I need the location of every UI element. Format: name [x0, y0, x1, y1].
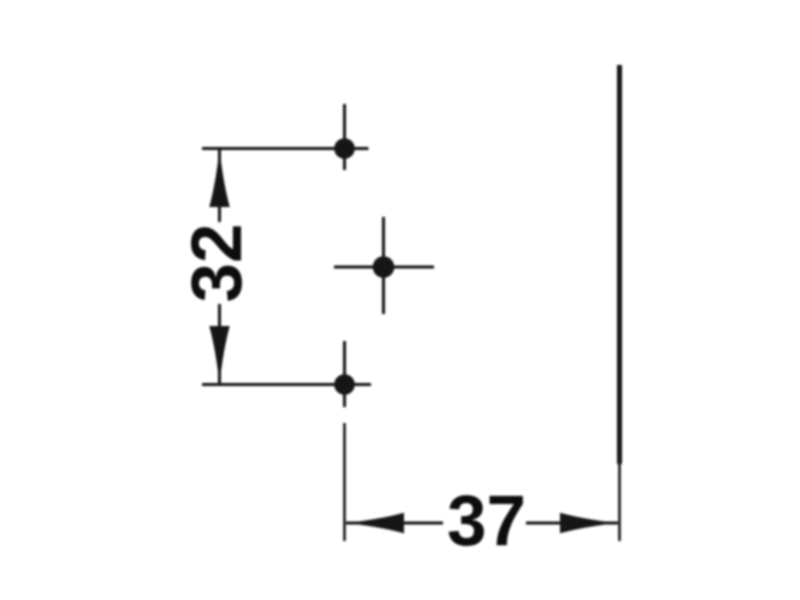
middle hole vertical centerline: [382, 217, 385, 314]
middle hole dot: [373, 256, 395, 278]
32 dimension line lower shaft: [218, 304, 221, 383]
panel edge line: [617, 65, 622, 464]
top hole horizontal centerline / 32-dim top extension line: [202, 147, 369, 150]
32 dimension line upper shaft: [218, 150, 221, 222]
37-dim left extension line (below bottom hole): [343, 423, 346, 541]
bottom hole dot: [334, 374, 355, 395]
37 dimension right arrowhead (points right): [560, 513, 618, 534]
37 dimension line right shaft: [526, 522, 618, 525]
svg-text:37: 37: [447, 482, 526, 561]
37 dimension line left shaft: [346, 522, 443, 525]
extension line below panel edge: [618, 464, 621, 541]
bottom hole horizontal centerline / 32-dim bottom extension line: [202, 383, 371, 386]
32 dimension lower arrowhead (points down): [209, 326, 229, 385]
32 dimension upper arrowhead (points up): [209, 149, 229, 208]
svg-text:32: 32: [178, 224, 257, 303]
middle hole horizontal centerline: [334, 266, 434, 269]
bottom hole vertical centerline: [343, 341, 346, 407]
top hole vertical centerline: [343, 104, 346, 170]
top hole dot: [334, 138, 355, 159]
37 dimension left arrowhead (points left): [346, 513, 404, 534]
